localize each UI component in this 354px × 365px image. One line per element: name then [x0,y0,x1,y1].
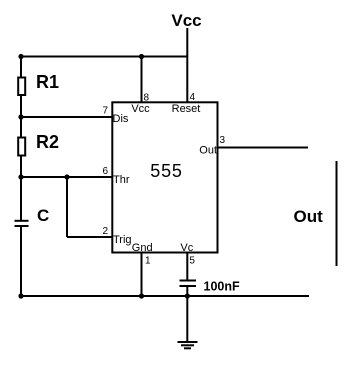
op-amp U1 555 box [112,102,217,252]
wire top rail Vcc [21,56,187,58]
capacitor C [15,220,29,222]
wire Vcc stem to pin 4 [186,28,188,102]
wire Dis pin 7 [21,116,112,118]
svg-text:Out: Out [199,145,217,157]
svg-text:Trig: Trig [113,234,132,246]
svg-text:8: 8 [144,93,150,104]
node junction 100nF / ground rail [185,293,190,298]
svg-text:4: 4 [190,92,196,103]
svg-text:R1: R1 [36,72,59,92]
resistor R1 [18,78,25,96]
node junction pin 1 / ground rail [139,293,144,298]
svg-text:1: 1 [145,256,151,267]
wire Out pin 3 [218,147,309,149]
wire R1 to R2 [20,95,22,138]
wire ground rail [21,295,309,297]
node junction Thr / Trig [64,174,69,179]
svg-text:Dis: Dis [113,113,129,125]
svg-text:Vcc: Vcc [131,103,150,115]
capacitor 100nF [180,280,197,282]
svg-text:2: 2 [102,226,108,237]
wire pin 1 Gnd drop [141,253,143,297]
svg-text:Out: Out [294,207,324,226]
svg-text:R2: R2 [36,132,59,152]
node junction R2 / C / Thr [18,174,23,179]
wire ground stem [186,296,188,342]
node junction top rail / R1 [18,54,23,59]
node Out terminal bar [336,161,338,266]
wire Trig pin 2 [67,236,112,238]
svg-text:Vc: Vc [180,242,193,254]
svg-text:Thr: Thr [113,174,130,186]
svg-text:100nF: 100nF [204,280,240,294]
svg-text:C: C [37,206,49,225]
svg-text:6: 6 [102,166,108,177]
node junction top rail / pin 8 [139,54,144,59]
node junction C / ground rail [18,293,23,298]
svg-text:Gnd: Gnd [132,242,153,254]
svg-text:Vcc: Vcc [171,11,201,30]
svg-text:Reset: Reset [172,103,201,115]
wire Trig branch vertical [66,177,68,237]
wire 100nF to rail [186,287,188,296]
wire C to ground rail [20,227,22,296]
wire Thr pin 6 [21,176,112,178]
svg-text:3: 3 [220,135,226,146]
resistor R2 [18,138,25,156]
node junction R1 / R2 / Dis [18,114,23,119]
ground [178,341,198,343]
wire left rail R1 top [20,57,22,79]
svg-text:5: 5 [189,256,195,267]
svg-text:7: 7 [102,106,108,117]
wire pin 8 drop [141,57,143,103]
wire pin 5 Vc drop [186,253,188,281]
svg-text:555: 555 [150,161,182,181]
wire R2 to C [20,156,22,221]
